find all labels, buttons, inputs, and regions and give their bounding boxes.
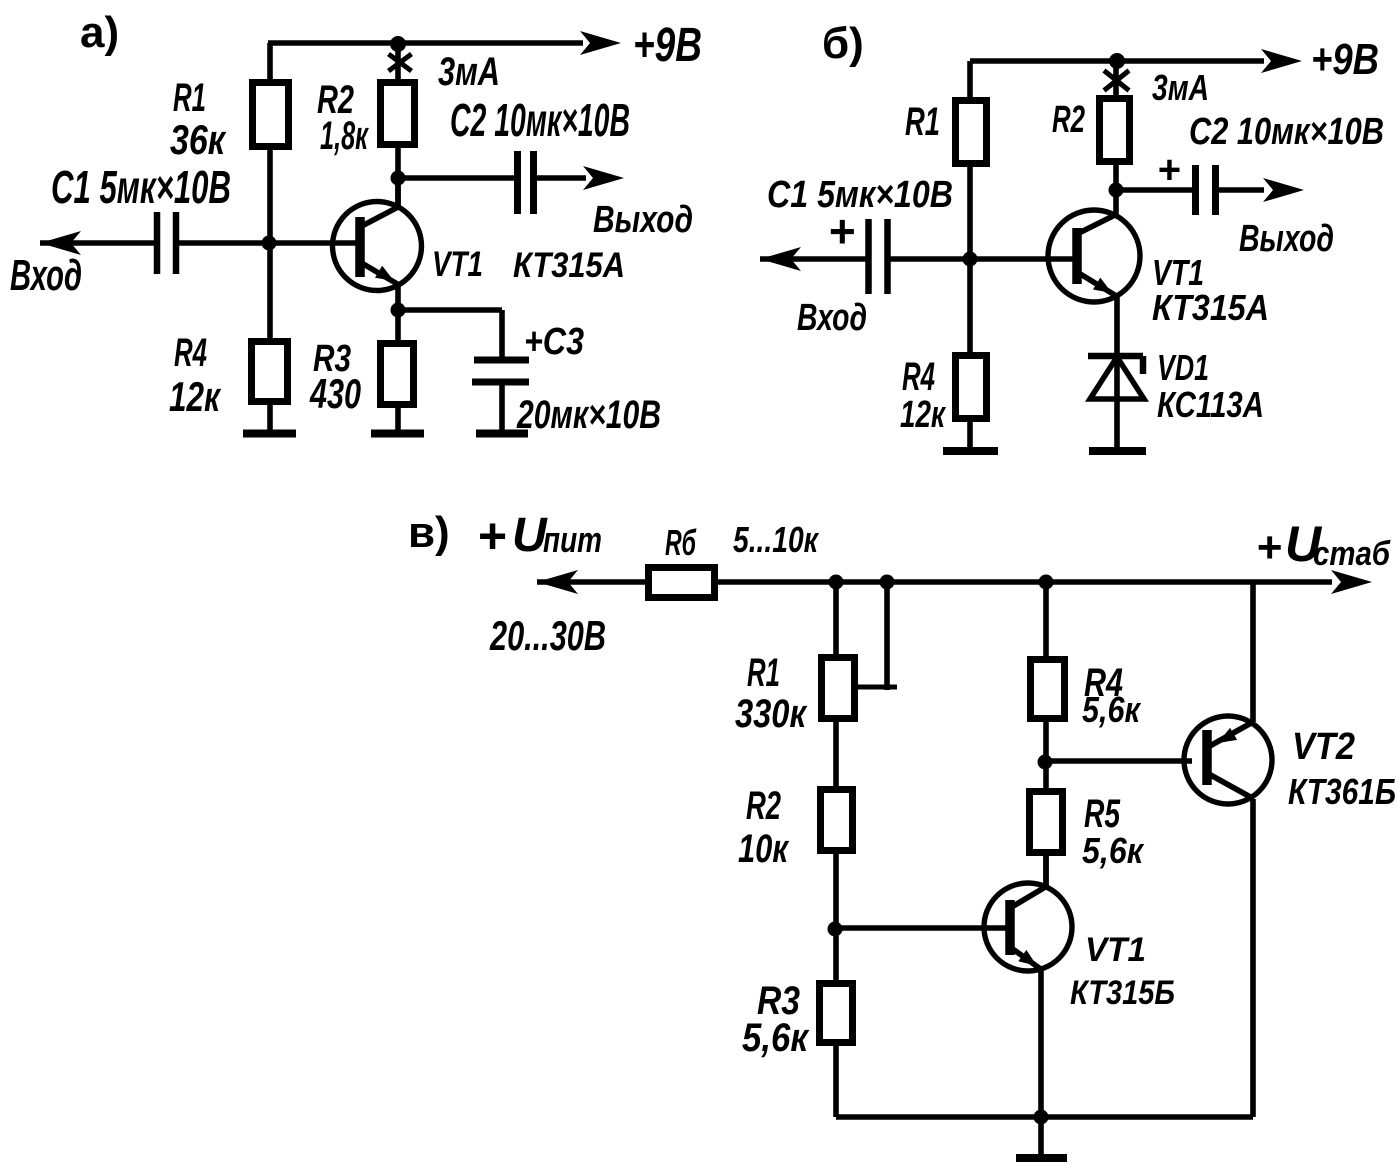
svg-text:+C3: +C3 [524, 321, 584, 363]
svg-text:Вход: Вход [797, 297, 867, 339]
svg-text:3мА: 3мА [1152, 67, 1209, 108]
svg-text:R1: R1 [173, 76, 206, 120]
svg-text:12к: 12к [900, 394, 946, 436]
svg-text:12к: 12к [169, 373, 221, 420]
svg-text:VT2: VT2 [1292, 726, 1355, 768]
svg-text:пит: пит [543, 519, 602, 560]
svg-text:R4: R4 [174, 331, 207, 375]
svg-text:Выход: Выход [593, 199, 693, 241]
svg-text:330к: 330к [735, 692, 807, 736]
svg-text:+: + [1256, 523, 1282, 572]
svg-text:КС113А: КС113А [1157, 384, 1264, 425]
svg-text:б): б) [822, 19, 864, 68]
svg-text:КТ361Б: КТ361Б [1288, 771, 1396, 812]
svg-text:R2: R2 [1052, 99, 1085, 141]
svg-text:5...10к: 5...10к [733, 519, 819, 560]
svg-text:Вход: Вход [10, 251, 82, 300]
svg-text:R1: R1 [905, 100, 940, 144]
svg-text:36к: 36к [170, 116, 226, 163]
svg-text:3мА: 3мА [438, 50, 500, 94]
svg-text:а): а) [80, 8, 119, 57]
svg-text:R2: R2 [746, 784, 781, 828]
svg-text:+9В: +9В [1311, 35, 1379, 84]
svg-text:КТ315А: КТ315А [513, 246, 625, 285]
svg-text:5,6к: 5,6к [1082, 830, 1145, 871]
svg-text:R4: R4 [902, 355, 935, 399]
svg-text:C2 10мк×10В: C2 10мк×10В [450, 94, 630, 146]
svg-text:C1 5мк×10В: C1 5мк×10В [767, 174, 953, 216]
svg-text:+: + [477, 508, 506, 564]
svg-text:R1: R1 [747, 651, 780, 695]
svg-text:10к: 10к [738, 827, 789, 871]
svg-text:VD1: VD1 [1157, 347, 1209, 388]
svg-text:5,6к: 5,6к [1082, 689, 1141, 730]
svg-text:VT1: VT1 [432, 245, 483, 284]
svg-text:Rб: Rб [665, 522, 697, 563]
svg-text:+: + [828, 205, 855, 257]
svg-text:1,8к: 1,8к [320, 114, 369, 158]
svg-text:20...30В: 20...30В [489, 612, 606, 659]
svg-text:5,6к: 5,6к [742, 1016, 809, 1060]
svg-text:C1 5мк×10В: C1 5мк×10В [51, 161, 231, 213]
svg-text:+9В: +9В [633, 19, 702, 72]
svg-text:20мк×10В: 20мк×10В [516, 393, 661, 437]
svg-text:стаб: стаб [1313, 535, 1391, 573]
svg-text:КТ315А: КТ315А [1152, 287, 1269, 328]
svg-text:Выход: Выход [1239, 218, 1334, 260]
svg-text:430: 430 [309, 370, 361, 417]
svg-text:КТ315Б: КТ315Б [1070, 974, 1175, 1012]
svg-text:+: + [1157, 148, 1180, 192]
svg-text:C2 10мк×10В: C2 10мк×10В [1189, 111, 1384, 153]
svg-text:в): в) [408, 508, 450, 557]
svg-text:VT1: VT1 [1085, 931, 1146, 969]
